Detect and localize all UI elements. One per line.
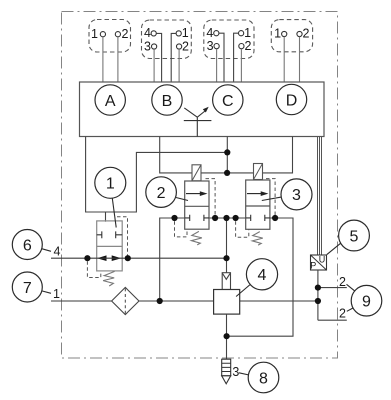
port 2 label (upper) <box>339 275 346 289</box>
svg-text:C: C <box>222 93 234 110</box>
wire C-3 to manifold <box>216 49 218 82</box>
svg-text:2: 2 <box>303 27 310 41</box>
valve V3 blocked-port marks (bottom position) <box>246 215 270 221</box>
balloon 9 <box>347 284 382 316</box>
wire C-4 to manifold <box>219 33 224 82</box>
svg-text:U: U <box>319 254 326 264</box>
wire B-3 to manifold <box>153 49 155 82</box>
wire: valve 3 output to lower branch <box>227 218 293 336</box>
balloon 6 <box>12 230 51 260</box>
port C-1 label <box>244 26 251 40</box>
port box A (dashed) <box>89 20 131 53</box>
svg-text:2: 2 <box>245 39 252 53</box>
port B-3 label <box>144 39 151 53</box>
port C-2 terminal <box>239 44 244 49</box>
valve V1 blocked-port marks (top position) <box>97 231 123 238</box>
svg-text:1: 1 <box>244 26 251 40</box>
svg-text:B: B <box>162 93 173 110</box>
svg-text:2: 2 <box>157 185 166 202</box>
valve V1 pilot line (dashed) <box>117 217 128 259</box>
wire A-1 to manifold <box>102 37 104 82</box>
svg-text:D: D <box>286 92 298 109</box>
svg-text:6: 6 <box>23 237 32 254</box>
svg-text:3: 3 <box>292 187 301 204</box>
valve V3 drain line (dashed) <box>236 221 249 237</box>
wire: manifold drop at x227 <box>226 137 228 173</box>
port box B (dashed) <box>142 20 192 59</box>
wire B-4 to manifold <box>156 33 161 82</box>
balloon 8 <box>239 362 279 393</box>
wire D-2 to manifold <box>299 37 301 82</box>
port B-3 terminal <box>152 44 157 49</box>
valve V2 blocked-port marks (bottom position) <box>185 215 209 221</box>
valve V1 return spring <box>103 271 115 286</box>
svg-text:3: 3 <box>232 365 239 379</box>
port C-2 label <box>245 39 252 53</box>
silencer (item 8 exhaust) <box>222 359 231 384</box>
wire: valve 1 top stub <box>105 212 107 222</box>
svg-text:4: 4 <box>258 267 267 284</box>
station label A <box>95 85 125 115</box>
valve V1 flow arrows (bottom position) <box>97 255 121 261</box>
port B-1 terminal <box>176 31 181 36</box>
balloon 5 <box>327 220 370 255</box>
port B-1 label <box>182 26 189 40</box>
valve V2 drain line (dashed) <box>175 221 188 237</box>
port 3 label (silencer) <box>232 365 239 379</box>
port 2 label (lower) <box>339 307 346 321</box>
check element above item 4 block <box>222 273 230 290</box>
wire: manifold to valve 1 loop (down, right, up to node line) <box>86 137 228 213</box>
balloon 3 <box>262 179 312 210</box>
station label C <box>213 85 243 115</box>
enclosure boundary (dash-dot frame) <box>62 12 338 359</box>
balloon 1 <box>95 167 126 227</box>
wire C-1 to manifold <box>234 33 239 82</box>
svg-text:1: 1 <box>182 26 189 40</box>
svg-text:2: 2 <box>339 275 346 289</box>
port A-1 label <box>91 27 98 41</box>
main line (item 4 block to right) <box>240 300 318 302</box>
svg-text:7: 7 <box>23 280 32 297</box>
svg-text:3: 3 <box>207 39 214 53</box>
svg-text:4: 4 <box>144 26 151 40</box>
valve V1 drain line (dashed) <box>87 261 100 277</box>
svg-text:P: P <box>310 261 316 271</box>
valve V3 flow arrow (top position) <box>247 191 268 196</box>
port C-3 label <box>207 39 214 53</box>
wire C-2 to manifold <box>240 49 242 82</box>
station label B <box>152 85 182 115</box>
wire A-2 to manifold <box>117 37 119 82</box>
wire: pressure switch down with port stubs <box>318 270 347 320</box>
wire: valves 2-3 output line <box>209 217 246 219</box>
port D-1 label <box>274 27 281 41</box>
station label D <box>276 84 306 114</box>
valve V3 body (2-position) <box>246 180 270 229</box>
svg-text:4: 4 <box>206 26 213 40</box>
balloon 2 <box>146 177 188 208</box>
wire D-1 to manifold <box>283 37 285 82</box>
port C-3 terminal <box>214 44 219 49</box>
wire: solenoid supply run (down, across behind solenoids, up) <box>160 137 293 173</box>
valve V2 body (2-position) <box>185 181 209 229</box>
valve V2 solenoid <box>192 165 201 181</box>
port A-2 terminal <box>115 32 120 37</box>
port D-1 terminal <box>282 31 287 36</box>
port D-2 label <box>303 27 310 41</box>
balloon 4 <box>236 259 278 297</box>
svg-text:3: 3 <box>144 39 151 53</box>
wire: drop from valves line through line 4 to check rect <box>226 218 228 273</box>
valve V3 pilot line (dashed) <box>266 179 275 218</box>
port 1 label (line 1) <box>53 287 60 301</box>
svg-text:2: 2 <box>122 27 129 41</box>
port A-2 label <box>122 27 129 41</box>
port 4 label (line 4) <box>54 245 61 259</box>
svg-text:2: 2 <box>182 39 189 53</box>
wire: riser from main line to valves 2/3 line <box>160 218 185 301</box>
port C-1 terminal <box>239 31 244 36</box>
line 1 (main inlet) <box>51 300 112 302</box>
wire: triple line to pressure switch <box>318 137 322 256</box>
pressure switch PU (item 5) <box>310 254 326 270</box>
filter F1 <box>112 287 139 314</box>
svg-text:4: 4 <box>54 245 61 259</box>
svg-text:8: 8 <box>259 370 268 387</box>
port B-4 label <box>144 26 151 40</box>
main line (filter to item 4 block) <box>139 300 214 302</box>
svg-text:9: 9 <box>362 294 371 311</box>
balloon 7 <box>12 272 51 302</box>
svg-text:5: 5 <box>350 228 359 245</box>
line 4 (supply to valve 1) <box>51 257 227 259</box>
port B-2 label <box>182 39 189 53</box>
valve V3 solenoid <box>254 164 263 180</box>
port C-4 terminal <box>214 31 219 36</box>
wire B-2 to manifold <box>178 49 180 82</box>
valve V2 flow arrow (top position) <box>186 191 208 196</box>
svg-text:2: 2 <box>339 307 346 321</box>
valve V2 return spring <box>191 231 202 245</box>
item 4 block (regulator) <box>214 290 240 315</box>
svg-text:A: A <box>105 93 116 110</box>
port box C (dashed) <box>204 20 254 59</box>
valve V1 body (2-position) <box>97 221 123 271</box>
port B-4 terminal <box>151 31 156 36</box>
valve V2 pilot line (dashed) <box>206 179 216 218</box>
svg-text:1: 1 <box>106 176 115 193</box>
wire: item 4 block down to silencer <box>226 314 228 359</box>
svg-text:1: 1 <box>91 27 98 41</box>
port D-2 terminal <box>297 31 302 36</box>
svg-text:1: 1 <box>53 287 60 301</box>
port box D (dashed) <box>271 20 312 52</box>
variable-flow arrow symbol inside manifold <box>184 107 212 137</box>
manifold block <box>80 82 325 137</box>
port B-2 terminal <box>177 44 182 49</box>
wire B-1 to manifold <box>171 33 176 82</box>
port A-1 terminal <box>100 32 105 37</box>
port C-4 label <box>206 26 213 40</box>
valve V3 return spring <box>252 232 262 246</box>
svg-text:1: 1 <box>274 27 281 41</box>
